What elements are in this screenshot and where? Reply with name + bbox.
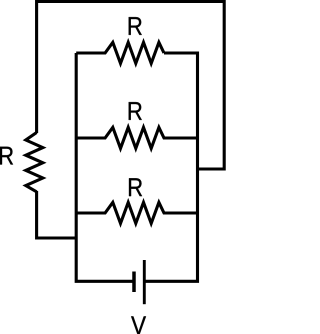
battery V positive plate (long bar) xyxy=(143,260,146,304)
label R (bottom resistor) xyxy=(129,178,142,196)
resistor R2 (top horizontal resistor, zigzag) xyxy=(76,42,164,63)
wire: inner right rail from R2 right lead down to battery right lead xyxy=(146,53,198,281)
wire: below left resistor down and right to middle rail bottom node xyxy=(37,191,77,238)
wire: middle vertical rail and battery left lead xyxy=(76,53,132,281)
battery V negative plate (short bar) xyxy=(132,272,136,293)
resistor R4 (bottom horizontal resistor, zigzag) xyxy=(76,202,197,223)
wire: outer loop (left side up, across top, down right side, jog left to inner-right rail) xyxy=(37,2,225,170)
label V (battery) xyxy=(131,316,146,334)
resistor R1 (left vertical resistor, zigzag) xyxy=(26,133,43,192)
resistor R3 (middle horizontal resistor, zigzag) xyxy=(76,127,197,148)
label R (top resistor) xyxy=(129,17,142,35)
label R (left resistor) xyxy=(0,147,13,165)
label R (middle resistor) xyxy=(129,102,142,120)
